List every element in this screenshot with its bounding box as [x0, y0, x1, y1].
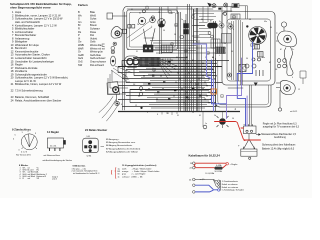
- svg-text:Rot-schwarz: Rot-schwarz: [90, 63, 105, 67]
- svg-text:SW: SW: [78, 63, 83, 67]
- svg-text:Gr: Gr: [118, 173, 121, 176]
- svg-text:B7 Ausgang Arbeitsschl. (Schr: B7 Ausgang Arbeitsschl. (Schreiber): [106, 147, 141, 150]
- svg-text:SI C/2A: SI C/2A: [215, 170, 223, 173]
- svg-text:D+: D+: [292, 49, 294, 51]
- svg-text:1 Zündstromkreis: 1 Zündstromkreis: [222, 180, 238, 183]
- svg-text:54: 54: [232, 118, 234, 120]
- svg-text:9: 9: [196, 41, 197, 43]
- svg-text:Ausführung: Ausführung: [274, 136, 286, 139]
- svg-text:9: 9: [147, 112, 148, 114]
- svg-text:+ Hupe / Gleich-halter: + Hupe / Gleich-halter: [132, 167, 152, 170]
- svg-text:9 Blinkrelais: 9 Blinkrelais: [73, 165, 87, 167]
- svg-text:52 84: 52 84: [87, 155, 92, 157]
- svg-text:49a: 49a: [192, 14, 195, 16]
- svg-text:schwarz: schwarz: [122, 175, 130, 178]
- svg-text:Relais, Anschlussklemmen über: Relais, Anschlussklemmen über Stecker: [15, 99, 61, 103]
- svg-text:Farben: Farben: [78, 3, 88, 7]
- svg-text:2b: 2b: [214, 115, 216, 117]
- svg-text:Blinkleuchte, hinten, Lampen 1: Blinkleuchte, hinten, Lampen 12 V 10 W: [15, 82, 62, 86]
- svg-text:51 o 61: 51 o 61: [50, 146, 56, 148]
- svg-text:6: 6: [233, 29, 234, 31]
- svg-text:30: 30: [246, 58, 248, 60]
- svg-text:f. Zündanlage, Schaden: f. Zündanlage, Schaden: [222, 190, 245, 192]
- svg-text:+ Regler: + Regler: [230, 163, 238, 166]
- svg-text:mit Anschlussbelegung der Stec: mit Anschlussbelegung der Stecker: [43, 159, 73, 162]
- svg-text:Sicherung dient dem Kabelbaum: Sicherung dient dem Kabelbaum: [262, 143, 295, 146]
- svg-text:orange: orange: [122, 170, 129, 173]
- svg-text:54: 54: [163, 30, 165, 32]
- svg-text:15: 15: [158, 12, 160, 14]
- svg-text:6: 6: [20, 178, 21, 180]
- svg-text:L: L: [228, 111, 229, 113]
- svg-text:12: 12: [224, 43, 226, 45]
- svg-text:51: 51: [127, 49, 129, 51]
- svg-text:31: 31: [177, 115, 179, 117]
- svg-text:art 09-21: art 09-21: [290, 110, 297, 113]
- svg-text:1a: 1a: [205, 123, 207, 125]
- svg-text:7,5 A Schmelzsicherung: 7,5 A Schmelzsicherung: [15, 89, 43, 93]
- svg-text:10 H-ganggleichrichter (zerti: 10 H-ganggleichrichter (zertifiziert): [122, 164, 157, 167]
- svg-text:D+: D+: [219, 21, 221, 23]
- svg-text:1a: 1a: [181, 19, 183, 21]
- svg-text:30: 30: [201, 19, 203, 21]
- svg-text:2b: 2b: [137, 24, 139, 26]
- svg-text:Nur Version 4TU: Nur Version 4TU: [16, 155, 31, 157]
- svg-text:1c: 1c: [118, 176, 120, 178]
- svg-text:0,63A: 0,63A: [216, 164, 222, 167]
- svg-text:54: 54: [231, 51, 233, 53]
- svg-text:DF: DF: [228, 23, 230, 25]
- svg-text:61: 61: [171, 13, 173, 15]
- svg-text:≠ + zum Regler: ≠ + zum Regler: [132, 173, 146, 176]
- svg-text:51: 51: [131, 9, 133, 11]
- svg-text:58: 58: [249, 19, 251, 21]
- svg-text:12: 12: [298, 89, 300, 91]
- svg-text:grau: grau: [122, 173, 126, 176]
- svg-text:Batterie 12 Ah (Mg möglich) 6,: Batterie 12 Ah (Mg möglich) 6,3: [262, 148, 295, 151]
- svg-text:B-N Ausgang Arbeitsschl. Giffs: B-N Ausgang Arbeitsschl. Giffswil: [106, 150, 138, 153]
- svg-text:49a: 49a: [262, 57, 265, 59]
- svg-text:6: 6: [121, 104, 122, 106]
- svg-text:Kabel zur unteren: Kabel zur unteren: [222, 186, 239, 189]
- svg-text:L: L: [151, 26, 152, 28]
- svg-text:Masseanschluss Flachstecker 1,: Masseanschluss Flachstecker 1,5: [261, 133, 296, 136]
- svg-text:DF: DF: [275, 69, 277, 71]
- svg-text:→ Fader / Hupe / Gleich-halter: → Fader / Hupe / Gleich-halter: [132, 170, 160, 173]
- svg-text:auf: auf: [28, 178, 31, 180]
- svg-text:teil kombination für lenken Bl: teil kombination für lenken Bl. 3: [73, 172, 99, 175]
- svg-text:DF: DF: [133, 84, 135, 86]
- svg-text:51: 51: [167, 113, 169, 115]
- svg-text:Regler mit 2x Plus-Anschluss 6: Regler mit 2x Plus-Anschluss 6,3: [263, 122, 297, 125]
- svg-text:1a: 1a: [183, 60, 185, 62]
- svg-text:61: 61: [176, 57, 178, 59]
- svg-text:24 Relais Stecker: 24 Relais Stecker: [85, 128, 107, 132]
- svg-text:14 Regler: 14 Regler: [47, 130, 59, 134]
- svg-text:B5 Ausgang +: B5 Ausgang +: [106, 138, 120, 141]
- svg-text:30: 30: [270, 27, 272, 29]
- svg-text:D+: D+: [127, 79, 129, 81]
- svg-text:Kabel zur oberen: Kabel zur oberen: [222, 183, 239, 186]
- svg-text:6: 6: [292, 77, 293, 79]
- svg-text:15: 15: [192, 112, 194, 114]
- svg-text:12: 12: [135, 105, 137, 107]
- svg-text:Kabelbaum für 16,22,24: Kabelbaum für 16,22,24: [189, 154, 221, 158]
- svg-text:4 1 2 3: 4 1 2 3: [21, 151, 28, 153]
- svg-text:58: 58: [174, 34, 176, 36]
- svg-text:61: 61: [199, 115, 201, 117]
- svg-text:15: 15: [170, 52, 172, 54]
- svg-text:31: 31: [136, 51, 138, 53]
- svg-text:(GND → M): (GND → M): [132, 176, 143, 178]
- svg-text:⅛ M: ⅛ M: [86, 136, 90, 138]
- svg-text:49a: 49a: [264, 21, 267, 23]
- svg-text:weiß: weiß: [122, 168, 127, 170]
- svg-text:31: 31: [139, 13, 141, 15]
- svg-text:B6 Abgang Besanstatslents: B6 Abgang Besanstatslents: [106, 144, 132, 147]
- svg-text:D 0,63 At: D 0,63 At: [206, 172, 215, 175]
- svg-text:mit Kleinanschluss: mit Kleinanschluss: [44, 154, 61, 157]
- svg-text:ausgelegt für 7V zusammen bei: ausgelegt für 7V zusammen bei 6,3: [263, 126, 300, 129]
- svg-text:ohne Begrenzungslicht vorne: ohne Begrenzungslicht vorne: [10, 6, 51, 10]
- svg-text:B5 Ausgang Besanwinker vorn: B5 Ausgang Besanwinker vorn: [106, 141, 136, 144]
- svg-text:L: L: [219, 55, 220, 57]
